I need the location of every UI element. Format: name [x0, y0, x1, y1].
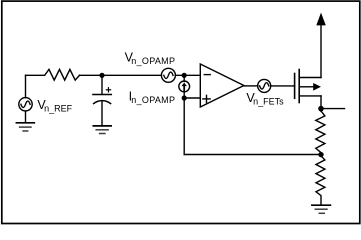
transistor Q1 drain line	[299, 77, 321, 79]
wire source down to node D	[320, 96, 322, 112]
node C junction dot	[182, 95, 187, 100]
node D junction dot	[318, 106, 324, 112]
voltage source Vn_FETs	[258, 79, 271, 92]
wire node C to op-amp plus input	[184, 97, 200, 99]
ground (below C1)	[93, 125, 111, 127]
resistor R_filter (horizontal)	[45, 69, 80, 80]
wire Vn_REF source to ground	[25, 111, 27, 123]
wire node B down to current source	[183, 75, 185, 81]
wire output stub right of node D	[321, 108, 345, 110]
node A junction dot	[99, 73, 104, 78]
wire drain up to supply arrow	[320, 26, 322, 78]
wire op-amp output to Vn_FETs source	[244, 85, 258, 87]
wire current source to node C	[183, 91, 185, 98]
resistor R1 (vertical)	[316, 111, 325, 155]
wire main rail to resistor R_filter	[26, 74, 45, 76]
transistor Q1 source line	[299, 95, 321, 97]
wire feedback horizontal to divider node	[184, 154, 321, 156]
supply arrow	[316, 13, 326, 26]
ground (below R2)	[312, 204, 331, 206]
wire node A down to capacitor C1	[101, 75, 103, 94]
capacitor C1 curved plate	[94, 101, 111, 104]
node B junction dot	[182, 73, 187, 78]
transistor Q1 channel bar	[298, 70, 300, 103]
resistor R2 (vertical)	[316, 155, 325, 206]
svg-text:n_OPAMP: n_OPAMP	[131, 95, 175, 105]
capacitor C1 top plate	[93, 94, 111, 96]
ground (below Vn_REF)	[16, 122, 34, 124]
wire from Vn_REF source up to main rail	[25, 75, 27, 97]
transistor Q1 gate bar	[294, 74, 296, 99]
op-amp U1	[200, 64, 244, 107]
wire capacitor to ground	[101, 101, 103, 126]
current source In_OPAMP	[179, 81, 190, 92]
svg-text:n_OPAMP: n_OPAMP	[131, 56, 175, 66]
transistor Q1 body line with arrow	[299, 86, 313, 88]
svg-text:n_FETs: n_FETs	[253, 97, 284, 107]
wire node C down (feedback vertical)	[183, 98, 185, 155]
capacitor C1 plus sign	[106, 89, 110, 91]
voltage source Vn_OPAMP	[161, 68, 175, 82]
wire Vn_OPAMP source to op-amp minus input	[175, 74, 200, 76]
arrowhead of current source In_OPAMP	[182, 83, 187, 87]
wire resistor to Vn_OPAMP source (through node A)	[80, 74, 162, 76]
svg-text:n_REF: n_REF	[44, 103, 73, 113]
node E junction dot	[318, 152, 323, 157]
wire Vn_FETs to MOSFET gate	[271, 85, 295, 87]
voltage source Vn_REF	[19, 98, 32, 111]
